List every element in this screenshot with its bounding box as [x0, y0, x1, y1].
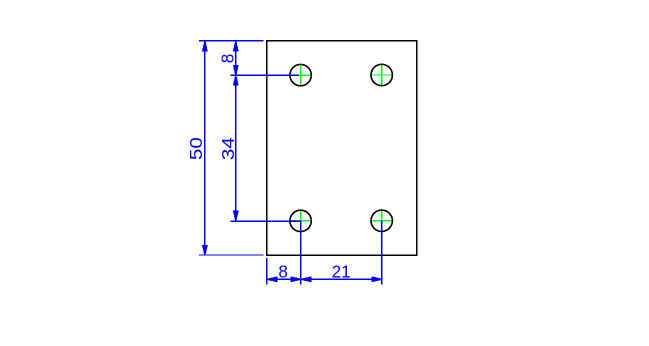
arrow 8bot right — [291, 277, 301, 281]
ext top horizontal — [199, 40, 264, 42]
dim line 34 vertical — [235, 75, 237, 221]
hole top-left — [290, 64, 311, 85]
dim line 50 vertical — [204, 41, 206, 255]
arrow 8bot left — [267, 277, 277, 281]
svg-text:34: 34 — [219, 137, 238, 160]
svg-text:21: 21 — [332, 262, 351, 282]
center mark hole bottom-left — [290, 210, 312, 232]
hole bottom-right — [371, 210, 392, 231]
arrow 34 top — [234, 75, 238, 85]
hole bottom-left — [290, 210, 311, 231]
arrow 21 left — [301, 277, 311, 281]
dimension lines (blue) — [205, 41, 382, 279]
svg-text:8: 8 — [218, 54, 238, 64]
arrow 8top upper — [234, 41, 238, 51]
ext hole row 2 — [231, 220, 301, 222]
arrowheads (blue) — [203, 41, 382, 282]
arrow 34 bottom — [234, 211, 238, 221]
ext hole col 1 vertical — [300, 221, 302, 285]
hole top-right — [371, 64, 392, 85]
svg-text:50: 50 — [188, 137, 207, 160]
arrow 8top lower — [234, 66, 238, 76]
dim line 8 bottom horizontal — [267, 278, 301, 280]
arrow 21 right — [372, 277, 382, 281]
center mark hole top-left — [290, 64, 312, 86]
extension lines (blue) — [199, 41, 382, 284]
center mark hole top-right — [371, 64, 393, 86]
dim line 8 top vertical — [235, 41, 237, 75]
ext hole row 1 — [231, 74, 300, 76]
dim line 21 horizontal — [301, 278, 382, 280]
plate outline — [267, 41, 417, 255]
arrow 50 top — [203, 41, 207, 51]
svg-text:8: 8 — [278, 262, 288, 282]
ext bottom horizontal — [199, 254, 264, 256]
ext hole col 2 vertical — [381, 221, 383, 285]
arrow 50 bottom — [203, 246, 207, 256]
ext left corner vertical — [266, 258, 268, 284]
center mark hole bottom-right — [371, 210, 393, 232]
